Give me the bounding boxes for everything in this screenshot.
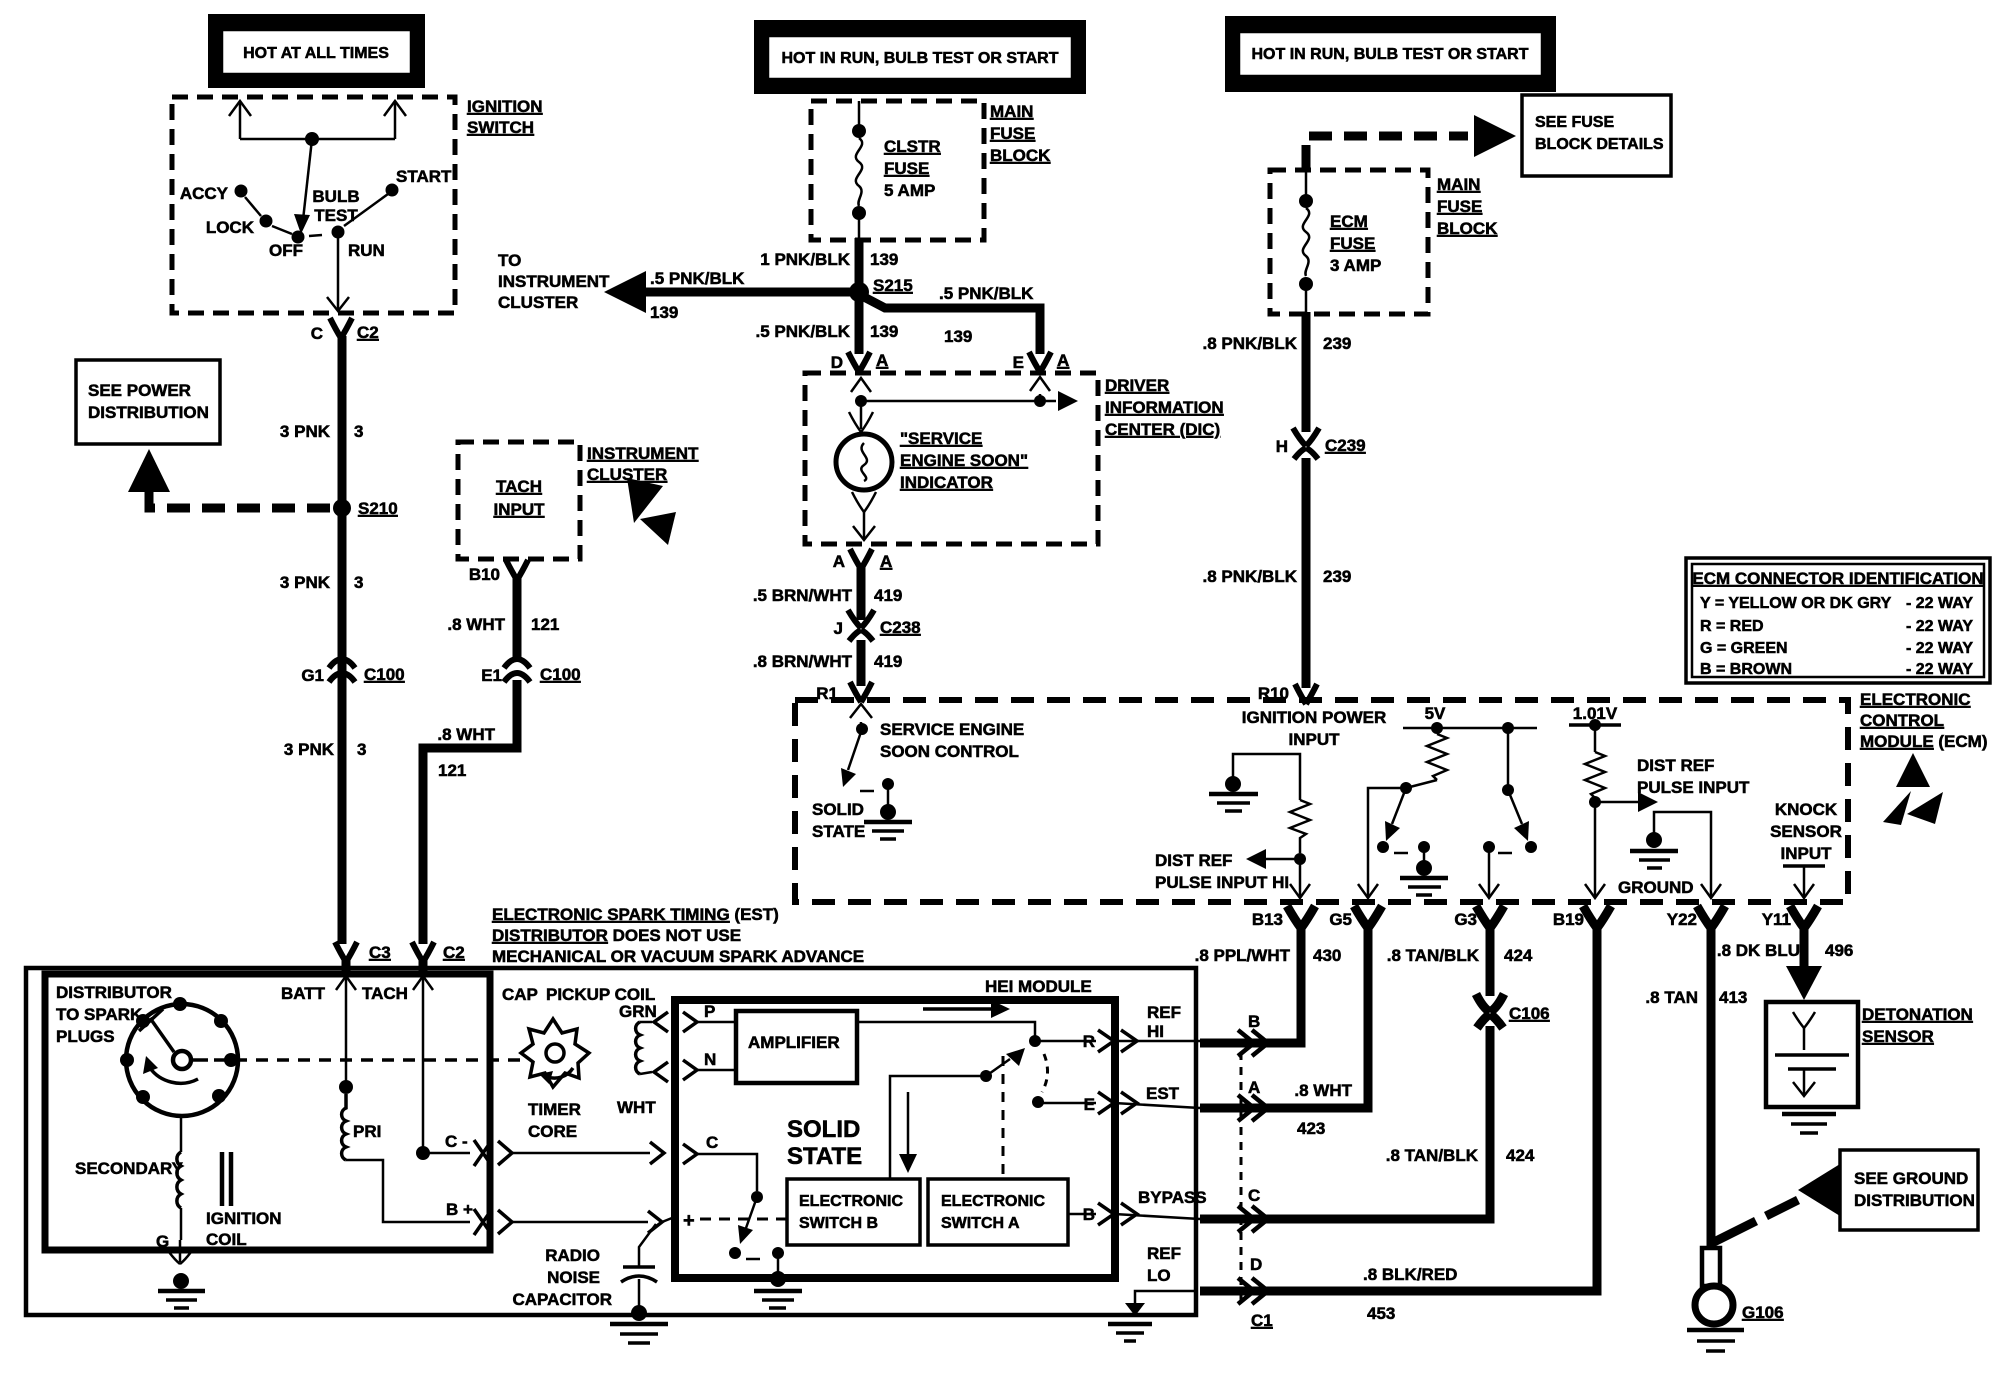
svg-text:PULSE INPUT HI: PULSE INPUT HI [1155, 873, 1289, 892]
arrow (signal direction) [923, 1007, 995, 1011]
svg-text:- 22 WAY: - 22 WAY [1906, 640, 1973, 657]
svg-text:C -: C - [445, 1132, 468, 1151]
svg-text:TO: TO [498, 251, 521, 270]
connector B+ at HEI edge [648, 1211, 662, 1233]
svg-text:DISTRIBUTION: DISTRIBUTION [88, 403, 209, 422]
svg-text:C100: C100 [540, 665, 581, 684]
svg-text:SECONDARY: SECONDARY [75, 1159, 184, 1178]
svg-text:"SERVICE: "SERVICE [900, 429, 982, 448]
connector B+ at distributor edge [474, 1209, 492, 1235]
svg-text:H: H [1276, 437, 1288, 456]
wire 5V rail [1403, 727, 1537, 730]
wire amplifier to switch [857, 1022, 1035, 1041]
svg-text:D: D [831, 353, 843, 372]
svg-text:419: 419 [874, 652, 902, 671]
connector WHT at HEI edge [654, 1062, 668, 1082]
svg-text:SWITCH A: SWITCH A [941, 1215, 1020, 1232]
svg-text:INPUT: INPUT [1781, 844, 1833, 863]
radio noise capacitor [621, 1224, 657, 1321]
switch arc (dashed) [1042, 1054, 1048, 1092]
wire .8 WHT 423 (EST) [1200, 926, 1368, 1108]
connector C2 (distributor TACH) [412, 942, 434, 962]
svg-text:C: C [311, 324, 323, 343]
svg-text:AMPLIFIER: AMPLIFIER [748, 1033, 840, 1052]
svg-text:121: 121 [531, 615, 559, 634]
contact and ground (HEI switch) [729, 1247, 802, 1308]
switch service engine soon control [856, 723, 868, 735]
wire service engine soon control input [860, 722, 863, 729]
main fuse block box (CLSTR fuse) [811, 101, 984, 240]
connector D/A (DIC) [848, 352, 870, 372]
svg-text:ELECTRONIC SPARK TIMING (EST): ELECTRONIC SPARK TIMING (EST) [492, 905, 779, 924]
svg-text:.8 BRN/WHT: .8 BRN/WHT [753, 652, 853, 671]
wire dist ref pulse input arrow [1595, 801, 1640, 804]
svg-text:INPUT: INPUT [494, 500, 546, 519]
wire DIC pin E internal [1039, 394, 1042, 401]
svg-text:SOON CONTROL: SOON CONTROL [880, 742, 1019, 761]
connector C2 (ignition switch) [330, 318, 352, 338]
wire B output (bypass) [1068, 1213, 1096, 1216]
connector B19 [1583, 906, 1611, 928]
node feed junction [305, 132, 319, 146]
ignition coil core [220, 1152, 225, 1206]
svg-text:SENSOR: SENSOR [1770, 822, 1842, 841]
wire C- to HEI [512, 1152, 650, 1155]
ignition switch box [172, 97, 455, 313]
svg-text:PLUGS: PLUGS [56, 1027, 115, 1046]
svg-text:BLOCK DETAILS: BLOCK DETAILS [1535, 136, 1664, 153]
distributor inner box [45, 974, 490, 1250]
svg-text:MAIN: MAIN [1437, 175, 1480, 194]
svg-text:CONTROL: CONTROL [1860, 711, 1944, 730]
svg-text:ELECTRONIC: ELECTRONIC [1860, 690, 1971, 709]
svg-text:.8 WHT: .8 WHT [1294, 1081, 1352, 1100]
wire 1.01V node [1569, 723, 1621, 727]
svg-text:5 AMP: 5 AMP [884, 181, 935, 200]
mechanical link (dashed) [191, 1058, 208, 1062]
node E contact [1032, 1096, 1044, 1108]
svg-text:424: 424 [1506, 1146, 1535, 1165]
svg-text:SWITCH: SWITCH [467, 118, 534, 137]
wire primary to B+ [346, 1160, 470, 1222]
wire .8 TAN/BLK 424 (upper) [1486, 926, 1495, 996]
wire B19 exit [1594, 802, 1597, 898]
terminal P [683, 1012, 697, 1032]
svg-text:C: C [706, 1133, 718, 1152]
svg-text:CAPACITOR: CAPACITOR [513, 1290, 613, 1309]
svg-text:G106: G106 [1742, 1303, 1784, 1322]
ESD symbol (ECM) [1896, 753, 1930, 787]
svg-text:496: 496 [1825, 941, 1853, 960]
svg-text:RADIO: RADIO [545, 1246, 600, 1265]
svg-text:A: A [1248, 1078, 1260, 1097]
wire 1 PNK/BLK 139 [855, 238, 864, 292]
svg-text:HOT IN RUN, BULB TEST OR START: HOT IN RUN, BULB TEST OR START [781, 50, 1058, 67]
wire BULB TEST-START [344, 194, 388, 226]
connector C- at distributor edge [474, 1140, 492, 1166]
svg-text:.8 WHT: .8 WHT [437, 725, 495, 744]
wire P to amplifier [697, 1021, 736, 1024]
svg-text:IGNITION: IGNITION [206, 1209, 282, 1228]
svg-text:ENGINE SOON": ENGINE SOON" [900, 451, 1028, 470]
svg-text:FUSE: FUSE [1437, 197, 1482, 216]
svg-text:.8 PPL/WHT: .8 PPL/WHT [1195, 946, 1291, 965]
contact LOCK [260, 215, 273, 228]
svg-text:DISTRIBUTION: DISTRIBUTION [1854, 1191, 1975, 1210]
banner HOT IN RUN, BULB TEST OR START (center) [754, 20, 1086, 94]
banner HOT AT ALL TIMES [208, 14, 425, 88]
connector GRN at HEI edge [654, 1012, 668, 1032]
connector C100 pin G1 [301, 659, 404, 685]
svg-text:MECHANICAL OR VACUUM SPARK ADV: MECHANICAL OR VACUUM SPARK ADVANCE [492, 947, 864, 966]
svg-text:.5 PNK/BLK: .5 PNK/BLK [650, 269, 745, 288]
svg-text:.8 DK BLU: .8 DK BLU [1717, 941, 1800, 960]
svg-text:E1: E1 [481, 666, 502, 685]
svg-text:BULB: BULB [312, 187, 359, 206]
svg-text:KNOCK: KNOCK [1775, 800, 1838, 819]
node DIC junction [855, 395, 867, 407]
svg-text:3: 3 [354, 422, 363, 441]
svg-text:R = RED: R = RED [1700, 618, 1764, 635]
svg-text:LO: LO [1147, 1266, 1171, 1285]
svg-text:MODULE (ECM): MODULE (ECM) [1860, 732, 1988, 751]
svg-text:INPUT: INPUT [1289, 730, 1341, 749]
svg-text:.8 TAN: .8 TAN [1645, 988, 1698, 1007]
wire .8 BRN/WHT 419 [857, 640, 866, 686]
svg-text:ACCY: ACCY [180, 184, 229, 203]
wire to instrument cluster (arrow left) [640, 288, 852, 297]
svg-text:CLUSTER: CLUSTER [498, 293, 578, 312]
connector G3 [1476, 906, 1504, 928]
svg-text:C238: C238 [880, 618, 921, 637]
svg-text:Y = YELLOW OR DK GRY: Y = YELLOW OR DK GRY [1700, 595, 1892, 612]
box SEE POWER DISTRIBUTION [76, 360, 220, 444]
fuse ECM FUSE 3 AMP [1299, 170, 1381, 314]
ground (detonation sensor) [1782, 1114, 1836, 1133]
node R switch junction [1029, 1035, 1041, 1047]
wire R output [1035, 1040, 1096, 1043]
svg-text:STATE: STATE [812, 822, 865, 841]
svg-text:C106: C106 [1509, 1004, 1550, 1023]
svg-text:- 22 WAY: - 22 WAY [1906, 595, 1973, 612]
wire ignition power input circuit [1233, 754, 1300, 800]
switch (EST changeover) [986, 1059, 1010, 1076]
svg-text:PRI: PRI [353, 1122, 381, 1141]
wire EST (thin) [1114, 1103, 1200, 1108]
wire .8 PNK/BLK 239 (upper) [1302, 312, 1311, 432]
svg-text:INSTRUMENT: INSTRUMENT [587, 444, 699, 463]
svg-text:B: B [1083, 1205, 1095, 1224]
svg-text:A: A [1057, 351, 1069, 370]
pickup coil winding [636, 1022, 652, 1074]
svg-text:DIST REF: DIST REF [1637, 756, 1714, 775]
svg-text:DIST REF: DIST REF [1155, 851, 1232, 870]
svg-text:ELECTRONIC: ELECTRONIC [799, 1193, 903, 1210]
svg-text:CLUSTER: CLUSTER [587, 465, 667, 484]
switch (dist ref to G5) [1392, 788, 1406, 824]
svg-text:FUSE: FUSE [884, 159, 929, 178]
wire DIC internal bus with arrow [861, 400, 1056, 403]
svg-text:453: 453 [1367, 1304, 1395, 1323]
connector C1 pin A [1238, 1095, 1268, 1121]
svg-text:DISTRIBUTOR: DISTRIBUTOR [56, 983, 172, 1002]
svg-text:J: J [834, 619, 843, 638]
svg-text:PULSE INPUT: PULSE INPUT [1637, 778, 1750, 797]
wire to power distribution (dashed) [149, 490, 330, 508]
wire .8 TAN 413 [1707, 926, 1716, 1250]
connector C1 pin D [1238, 1278, 1268, 1304]
wire switch pivot to electronic switch B [890, 1076, 986, 1179]
svg-text:TACH: TACH [496, 477, 542, 496]
node dist ref junction [1589, 796, 1601, 808]
svg-text:N: N [704, 1050, 716, 1069]
svg-text:.5 PNK/BLK: .5 PNK/BLK [756, 322, 851, 341]
connector Y22 [1697, 906, 1725, 928]
svg-text:CORE: CORE [528, 1122, 577, 1141]
svg-text:B: B [1248, 1012, 1260, 1031]
svg-text:139: 139 [870, 250, 898, 269]
svg-text:121: 121 [438, 761, 466, 780]
ESD symbol (instrument cluster) [627, 478, 663, 523]
distributor assembly outer box [26, 968, 1196, 1315]
splice S210 [333, 499, 351, 517]
svg-text:TACH: TACH [362, 984, 408, 1003]
contact gap dash [309, 235, 322, 236]
wire REF LO to case ground [1135, 1291, 1196, 1303]
wire .8 PPL/WHT 430 (REF HI) [1200, 926, 1301, 1043]
svg-text:.8 TAN/BLK: .8 TAN/BLK [1387, 946, 1480, 965]
ground (distributor G) [158, 1273, 205, 1308]
instrument cluster TACH INPUT box [458, 442, 580, 559]
svg-text:R: R [1083, 1032, 1095, 1051]
svg-text:C: C [1248, 1186, 1260, 1205]
ground (ignition power input) [1209, 776, 1258, 811]
box SEE FUSE BLOCK DETAILS [1522, 95, 1671, 176]
svg-text:IGNITION POWER: IGNITION POWER [1242, 708, 1387, 727]
wire TACH entering distributor [422, 976, 425, 1000]
svg-text:E: E [1013, 353, 1024, 372]
svg-text:C100: C100 [364, 665, 405, 684]
terminal N [683, 1060, 697, 1080]
connector C at HEI edge [650, 1142, 664, 1164]
svg-text:S210: S210 [358, 499, 398, 518]
connector B13 [1287, 906, 1315, 928]
svg-text:STATE: STATE [787, 1143, 862, 1170]
svg-text:.8 TAN/BLK: .8 TAN/BLK [1386, 1146, 1479, 1165]
svg-text:REF: REF [1147, 1244, 1181, 1263]
wire feed arrow right [394, 101, 397, 139]
svg-text:HOT AT ALL TIMES: HOT AT ALL TIMES [243, 45, 389, 62]
svg-text:.8 BLK/RED: .8 BLK/RED [1363, 1265, 1457, 1284]
primary winding PRI [342, 1094, 346, 1160]
node dist ref hi junction [1294, 853, 1306, 865]
wire N to amplifier [697, 1069, 736, 1072]
wire .5 BRN/WHT 419 [857, 567, 866, 620]
wire ACCY-LOCK [245, 197, 261, 216]
timer core gear [521, 1019, 589, 1087]
box SEE GROUND DISTRIBUTION [1840, 1150, 1978, 1230]
svg-text:413: 413 [1719, 988, 1747, 1007]
svg-text:3: 3 [354, 573, 363, 592]
svg-text:3 PNK: 3 PNK [280, 573, 331, 592]
svg-text:C3: C3 [369, 943, 391, 962]
electronic switch A box [928, 1179, 1068, 1245]
svg-text:RUN: RUN [348, 241, 385, 260]
svg-text:B +: B + [446, 1200, 473, 1219]
svg-text:239: 239 [1323, 334, 1351, 353]
main fuse block box (ECM fuse) [1270, 170, 1428, 314]
wire feed arrow left [239, 101, 242, 139]
svg-text:GROUND: GROUND [1618, 878, 1694, 897]
svg-text:DISTRIBUTOR DOES NOT USE: DISTRIBUTOR DOES NOT USE [492, 926, 741, 945]
svg-text:- 22 WAY: - 22 WAY [1906, 661, 1973, 678]
wire DIC pin D internal [860, 396, 863, 401]
banner HOT IN RUN, BULB TEST OR START (right) [1225, 16, 1556, 92]
svg-text:G = GREEN: G = GREEN [1700, 640, 1788, 657]
indicator SERVICE ENGINE SOON bulb [836, 403, 892, 540]
connector R10 (ECM ignition power input) [1295, 684, 1317, 704]
connector Y11 [1790, 906, 1818, 928]
svg-text:REF: REF [1147, 1003, 1181, 1022]
svg-text:HEI MODULE: HEI MODULE [985, 977, 1092, 996]
wire dist ref pulse input hi arrow [1262, 858, 1300, 861]
svg-text:C2: C2 [443, 943, 465, 962]
wire C- line [423, 1152, 470, 1155]
ground (radio noise capacitor) [610, 1324, 668, 1343]
svg-text:HI: HI [1147, 1022, 1164, 1041]
svg-text:.5 PNK/BLK: .5 PNK/BLK [939, 284, 1034, 303]
resistor (dist ref pulse input hi) [1290, 800, 1310, 853]
connector E/A (DIC) [1029, 352, 1051, 372]
node 5V switch pivot [1406, 780, 1437, 788]
wire E output [1038, 1102, 1096, 1105]
svg-text:A: A [880, 552, 892, 571]
wire .8 TAN/BLK 424 (lower, BYPASS) [1200, 1026, 1490, 1219]
svg-text:A: A [833, 552, 845, 571]
svg-text:C239: C239 [1325, 436, 1366, 455]
ring terminal G106 [1695, 1248, 1784, 1324]
svg-text:B10: B10 [469, 565, 500, 584]
svg-text:1 PNK/BLK: 1 PNK/BLK [760, 250, 850, 269]
svg-text:LOCK: LOCK [206, 218, 255, 237]
svg-text:139: 139 [944, 327, 972, 346]
connector R1 (ECM service engine soon control) [850, 682, 872, 702]
svg-text:G3: G3 [1454, 910, 1477, 929]
contact ACCY [235, 185, 248, 198]
connector C106 [1476, 994, 1550, 1028]
wire 3 PNK circuit 3 (ignition feed) [338, 336, 347, 944]
svg-text:WHT: WHT [617, 1098, 656, 1117]
svg-text:SEE GROUND: SEE GROUND [1854, 1169, 1968, 1188]
connector C1 pin B [1238, 1030, 1268, 1056]
svg-text:ELECTRONIC: ELECTRONIC [941, 1193, 1045, 1210]
svg-text:.5 BRN/WHT: .5 BRN/WHT [753, 586, 853, 605]
arrow (down, control) [907, 1092, 910, 1158]
svg-text:CENTER (DIC): CENTER (DIC) [1105, 420, 1220, 439]
svg-text:NOISE: NOISE [547, 1268, 600, 1287]
svg-text:C1: C1 [1251, 1311, 1273, 1330]
svg-text:Y11: Y11 [1762, 910, 1791, 929]
svg-text:COIL: COIL [206, 1230, 247, 1249]
wire BATT entering distributor [345, 976, 348, 1000]
svg-text:SERVICE ENGINE: SERVICE ENGINE [880, 720, 1024, 739]
connector C238 pin J [834, 610, 921, 641]
svg-text:DETONATION: DETONATION [1862, 1005, 1973, 1024]
electronic control module box [795, 700, 1848, 902]
svg-text:419: 419 [874, 586, 902, 605]
wire .8 WHT 121 (lower, to C2) [423, 680, 517, 944]
svg-text:BATT: BATT [281, 984, 326, 1003]
svg-text:IGNITION: IGNITION [467, 97, 543, 116]
svg-text:3 PNK: 3 PNK [280, 422, 331, 441]
svg-text:430: 430 [1313, 946, 1341, 965]
wire ECM ground to Y22 [1654, 812, 1711, 898]
wire G5 exit [1368, 788, 1406, 898]
svg-text:B = BROWN: B = BROWN [1700, 661, 1792, 678]
secondary winding [177, 1114, 181, 1240]
wire .5 PNK/BLK 139 (S215 to DIC pin E) [864, 297, 1040, 354]
wire to fuse block details (dashed) [1306, 136, 1468, 168]
svg-text:B13: B13 [1252, 910, 1283, 929]
node TACH to C- junction [416, 1146, 430, 1160]
svg-text:139: 139 [650, 303, 678, 322]
wire REF HI (thin) [1114, 1040, 1200, 1043]
svg-text:SEE FUSE: SEE FUSE [1535, 114, 1614, 131]
svg-text:TIMER: TIMER [528, 1100, 581, 1119]
svg-text:FUSE: FUSE [1330, 234, 1375, 253]
svg-text:ECM CONNECTOR IDENTIFICATION: ECM CONNECTOR IDENTIFICATION [1692, 569, 1983, 588]
amplifier box [736, 1011, 857, 1083]
connector G5 [1354, 906, 1382, 928]
svg-text:G1: G1 [301, 666, 324, 685]
svg-text:INDICATOR: INDICATOR [900, 473, 993, 492]
wire .5 PNK/BLK 139 (S215 to DIC pin D) [855, 294, 864, 354]
svg-text:HOT IN RUN, BULB TEST OR START: HOT IN RUN, BULB TEST OR START [1251, 46, 1528, 63]
svg-text:423: 423 [1297, 1119, 1325, 1138]
splice S215 [849, 282, 869, 302]
node BATT-primary junction [339, 1080, 353, 1094]
wire 5V second branch [1507, 728, 1510, 790]
svg-text:SOLID: SOLID [812, 800, 864, 819]
svg-text:3 AMP: 3 AMP [1330, 256, 1381, 275]
svg-text:MAIN: MAIN [990, 102, 1033, 121]
svg-text:SOLID: SOLID [787, 1116, 860, 1143]
wire BYPASS (thin) [1114, 1214, 1200, 1219]
contact and ground (5V switch) [1400, 841, 1448, 895]
svg-text:E: E [1084, 1095, 1095, 1114]
svg-text:- 22 WAY: - 22 WAY [1906, 618, 1973, 635]
contact BULB TEST [332, 226, 345, 239]
svg-text:BLOCK: BLOCK [990, 146, 1051, 165]
svg-text:.8 WHT: .8 WHT [447, 615, 505, 634]
svg-text:424: 424 [1504, 946, 1533, 965]
resistor (1.01V) [1585, 752, 1605, 798]
rotor arm [150, 1018, 174, 1052]
connector A/A (below DIC) [850, 549, 872, 569]
svg-text:EST: EST [1146, 1084, 1180, 1103]
resistor (5V pullup) [1427, 734, 1447, 780]
wire .8 DK BLU 496 [1800, 926, 1809, 972]
wire + to switch B (dashed) [700, 1218, 787, 1221]
wire knock sensor input (Y11) [1783, 864, 1825, 868]
connector C3 (distributor BATT) [335, 942, 357, 962]
svg-text:DRIVER: DRIVER [1105, 376, 1169, 395]
wire switch A control (dashed) [1002, 1056, 1005, 1179]
driver information center box [805, 373, 1098, 544]
svg-text:B19: B19 [1553, 910, 1584, 929]
svg-text:START: START [396, 167, 452, 186]
svg-text:.8 PNK/BLK: .8 PNK/BLK [1203, 567, 1298, 586]
